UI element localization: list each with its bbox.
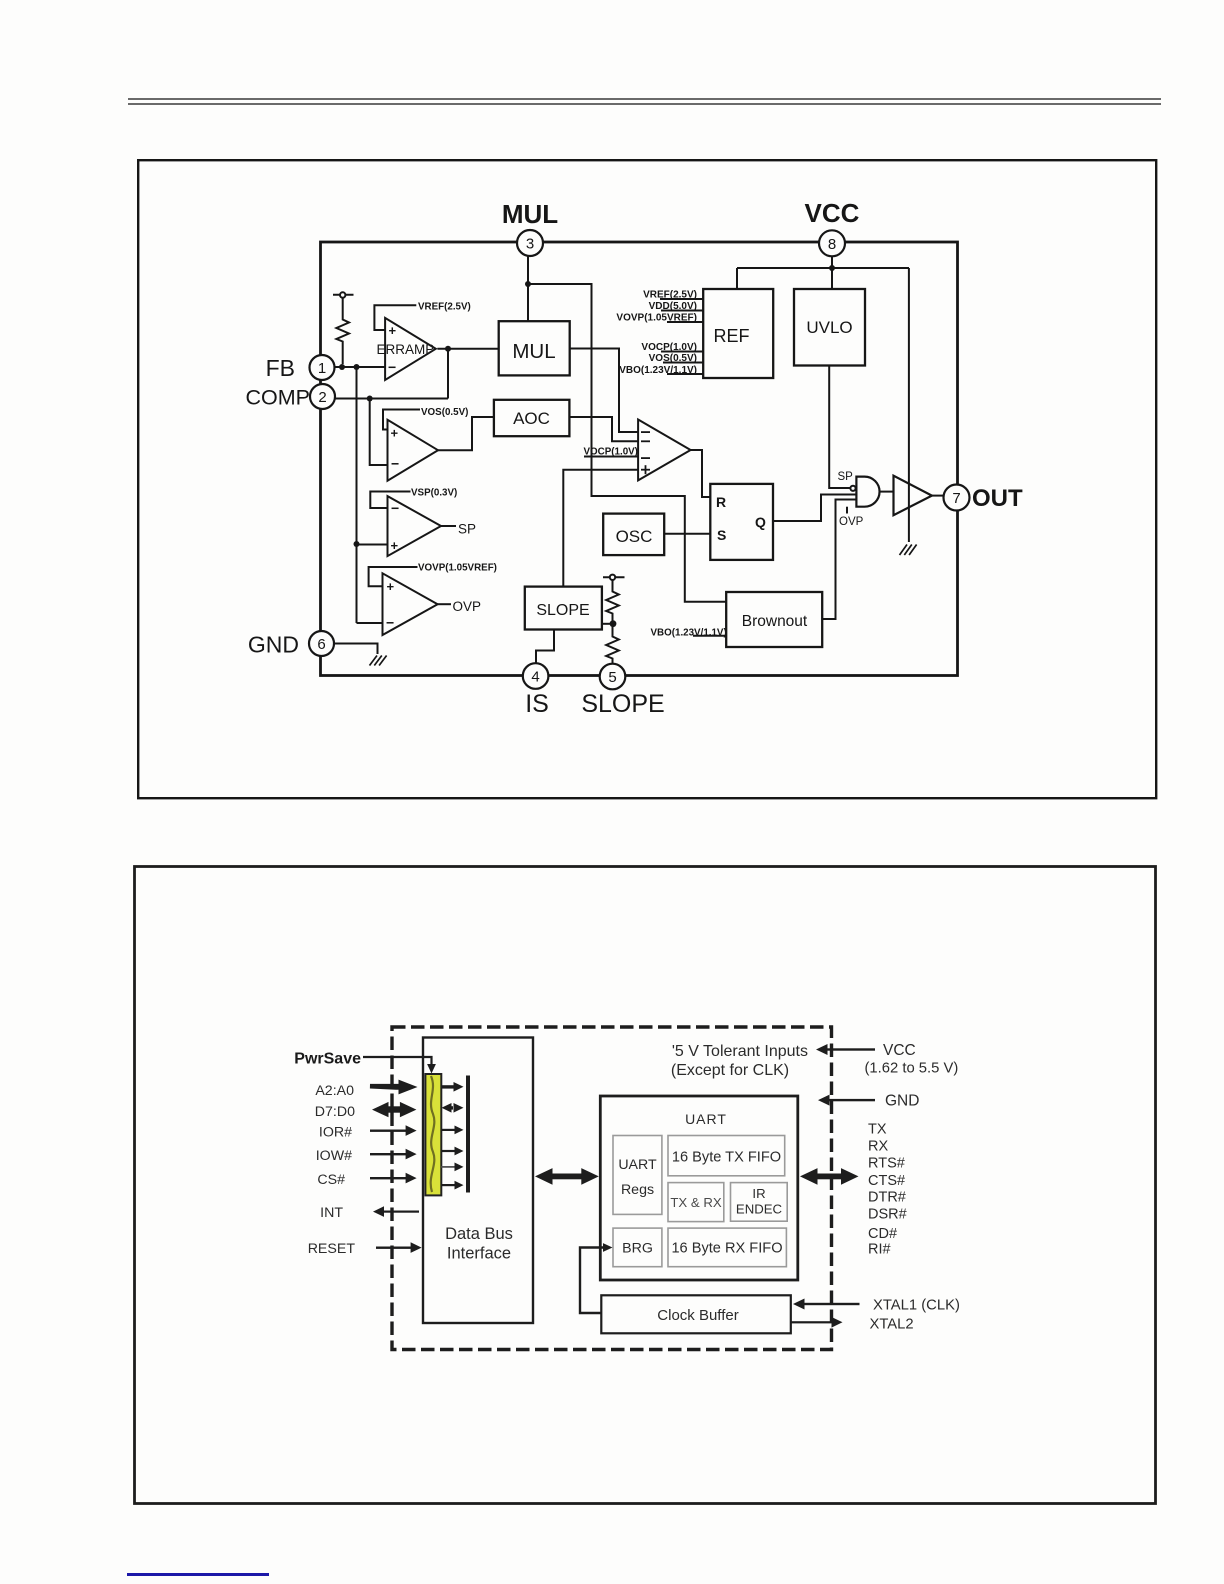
svg-text:VOCP(1.0V): VOCP(1.0V) [641,342,697,353]
svg-text:RI#: RI# [868,1242,891,1258]
UART Regs box [613,1136,662,1215]
pin 2 COMP [310,384,335,409]
arrow XTAL1 into clock buffer [799,1303,860,1305]
wire SLOPE box bottom to pin 4 [536,630,554,664]
svg-text:FB: FB [266,355,295,381]
wire VCC long drop to driver ground [908,268,910,542]
svg-text:CTS#: CTS# [868,1173,905,1189]
svg-text:GND: GND [248,632,299,658]
node below pin 8 [829,265,835,271]
comparator input tick 2 [641,440,650,442]
wire REF stub VBO [667,373,703,375]
pin 5 SLOPE [600,664,626,690]
svg-text:7: 7 [952,490,960,507]
arrow IOR# [370,1130,406,1132]
register cell swirl [431,1076,435,1192]
figure 1 border frame [137,159,1158,800]
svg-text:COMP: COMP [246,386,311,410]
wire driver output to pin 7 [932,495,944,497]
wire REF stub VOCP [661,351,703,353]
wire R1 terminal bar [333,294,354,296]
svg-text:RESET: RESET [308,1241,356,1257]
pin 1 FB [310,355,335,380]
RX FIFO box [668,1228,786,1267]
Brownout box [726,592,822,647]
svg-text:VOS(0.5V): VOS(0.5V) [421,407,468,418]
svg-text:VOVP(1.05VREF): VOVP(1.05VREF) [616,313,697,324]
ground symbol under driver [900,545,917,556]
wire OSC output to S [664,533,710,535]
wire FB to SP amp plus input [357,544,388,546]
comparator PWM triangle [638,420,691,481]
svg-text:TX & RX: TX & RX [670,1195,721,1210]
svg-text:4: 4 [531,669,539,686]
svg-text:CS#: CS# [317,1172,345,1188]
svg-text:+: + [389,323,397,338]
svg-text:MUL: MUL [512,340,555,363]
wire to REF top [736,268,738,289]
svg-text:VREF(2.5V): VREF(2.5V) [643,290,697,301]
bus arrow d7 row double [446,1106,453,1109]
arrow D7:D0 double [383,1106,406,1112]
svg-text:16 Byte RX FIFO: 16 Byte RX FIFO [671,1241,782,1257]
figure 2 border frame [133,865,1159,1507]
arrow A2:A0 [370,1086,404,1087]
resistor R2 slope upper [606,580,619,621]
bus arrow cs row [441,1166,456,1168]
svg-text:OVP: OVP [839,516,864,528]
svg-text:D7:D0: D7:D0 [315,1104,355,1120]
node FB b [354,364,360,370]
bus arrow int row [441,1184,456,1186]
wire SP output [441,525,456,527]
wire VSP stub to SP minus [370,492,410,509]
svg-text:6: 6 [317,636,325,653]
BRG box [613,1228,662,1267]
pin 8 VCC [819,230,845,256]
svg-text:UVLO: UVLO [806,318,852,337]
arrow IOW# [370,1153,406,1155]
svg-text:R: R [716,494,726,510]
wire VREF stub to ERRAMP plus [374,305,416,330]
node ERRAMP output [445,346,451,352]
wire VBO underline to Brownout [693,635,726,637]
gate OVP stub [846,507,848,514]
svg-text:VCC: VCC [805,198,860,228]
svg-text:UART: UART [685,1111,727,1127]
svg-text:SLOPE: SLOPE [581,690,664,718]
driver buffer triangle [894,476,932,516]
svg-text:(Except for CLK): (Except for CLK) [671,1062,789,1079]
svg-text:IOR#: IOR# [319,1125,352,1141]
top double rule [128,98,1161,100]
svg-text:VDD(5.0V): VDD(5.0V) [649,301,697,312]
svg-text:16 Byte TX FIFO: 16 Byte TX FIFO [672,1150,781,1166]
wire MUL output to comparator [570,349,638,433]
REF box [703,289,773,378]
wire REF stub VOS [663,362,703,364]
wire VCC rail branch [737,267,909,269]
comparator input tick 1 [641,431,650,433]
svg-text:IS: IS [525,690,549,718]
svg-text:REF: REF [714,326,750,346]
wire ERRAMP output to MUL [437,348,498,350]
svg-text:XTAL2: XTAL2 [870,1317,914,1333]
arrow RESET [376,1247,412,1249]
svg-text:Interface: Interface [447,1245,511,1263]
pin 3 MUL [517,230,543,256]
MUL multiplier box [499,321,570,375]
wire FB pin1 to ERRAMP [334,366,385,368]
svg-text:VREF(2.5V): VREF(2.5V) [418,302,471,313]
bus arrow ior row [441,1129,456,1131]
wire COMP pin2 [335,398,448,400]
svg-text:XTAL1 (CLK): XTAL1 (CLK) [873,1298,960,1314]
svg-text:8: 8 [828,236,836,253]
svg-text:VOVP(1.05VREF): VOVP(1.05VREF) [418,563,497,574]
wire FB bus down [356,367,358,623]
ground symbol near pin 6 [370,656,387,666]
svg-text:ERRAMP: ERRAMP [377,342,435,357]
TX FIFO box [668,1136,785,1176]
arrow CS# [370,1177,406,1179]
svg-text:DSR#: DSR# [868,1207,907,1223]
svg-text:UART: UART [618,1157,657,1173]
svg-text:Q: Q [755,514,766,530]
wire pin6 to ground [334,644,378,655]
register cell yellow [425,1074,441,1195]
pin 6 GND [309,631,334,656]
IC internal boundary box [321,242,958,676]
wire SLOPE box to divider node [602,623,613,625]
svg-text:RTS#: RTS# [868,1156,905,1172]
svg-text:3: 3 [526,236,534,253]
svg-text:VCC: VCC [883,1042,916,1059]
wire FB to OVP amp minus input [357,622,383,624]
wire VOCP stub third input [584,456,638,458]
node junction below pin 3 [525,281,531,287]
op-amp SP comparator triangle [388,496,442,556]
svg-text:IOW#: IOW# [316,1148,352,1164]
wire pin3 node to brownout feed [528,284,726,602]
svg-text:VBO(1.23V/1.1V): VBO(1.23V/1.1V) [619,365,697,376]
wire comparator output to R [690,450,710,497]
pin 7 OUT [944,485,970,511]
svg-text:GND: GND [885,1093,919,1110]
wire VOVP stub to OVP plus [369,567,418,586]
chip dashed boundary [392,1027,832,1350]
svg-text:(1.62 to 5.5 V): (1.62 to 5.5 V) [865,1061,959,1077]
op-amp AOC comparator triangle [388,420,439,481]
flip-flop RS box [710,484,773,560]
svg-text:RX: RX [868,1139,888,1155]
arrow PwrSave head [427,1064,436,1074]
svg-text:VBO(1.23V/1.1V): VBO(1.23V/1.1V) [651,628,727,639]
svg-text:IR: IR [752,1186,765,1201]
svg-text:Regs: Regs [621,1182,654,1198]
arrow XTAL2 out [791,1321,837,1323]
AND gate input bubble [850,486,855,491]
AND gate U2 [856,477,879,507]
svg-text:AOC: AOC [513,409,550,428]
bus arrow a2 row [441,1085,455,1088]
svg-text:PwrSave: PwrSave [294,1051,361,1068]
svg-text:CD#: CD# [868,1226,897,1242]
svg-text:BRG: BRG [622,1241,653,1257]
wire Brownout output to gate [822,500,856,620]
svg-text:−: − [391,500,399,516]
arrow BRG head [603,1243,613,1252]
wire REF stub VDD [661,310,703,312]
svg-text:VSP(0.3V): VSP(0.3V) [411,488,457,499]
pin 4 IS [523,663,549,689]
bus double arrow DBI to UART [546,1174,588,1180]
wire REF stub VOVP [667,321,703,323]
svg-text:ENDEC: ENDEC [736,1202,783,1217]
wire BRG to clock buffer [580,1248,604,1314]
svg-text:MUL: MUL [502,199,558,229]
SLOPE box [525,587,602,630]
wire gate output to driver [880,491,894,493]
arrow INT left [383,1211,419,1213]
op-amp ERRAMP triangle [385,318,436,380]
UART box [600,1096,798,1280]
Clock Buffer box [601,1295,791,1333]
svg-text:VOCP(1.0V): VOCP(1.0V) [584,447,638,458]
svg-text:2: 2 [318,389,326,406]
wire AOC amp output [438,417,494,450]
svg-text:−: − [391,456,399,472]
arrow GND into chip [824,1099,875,1101]
UVLO box [794,289,865,366]
svg-text:SP: SP [458,522,476,537]
internal bus line [466,1076,470,1193]
wire ERRAMP output to COMP [447,349,449,399]
node COMP branch [367,396,373,402]
wire UVLO output down to gate [829,366,850,489]
bus arrow iow row [441,1150,456,1152]
svg-text:−: − [388,359,396,375]
svg-text:SLOPE: SLOPE [536,602,589,619]
OSC box [603,514,664,556]
TX RX box [668,1183,724,1222]
resistor R1 [336,298,349,364]
svg-text:+: + [387,579,395,594]
wire pin3 stem to MUL [527,256,529,321]
svg-text:Data Bus: Data Bus [445,1225,513,1243]
wire OVP output [438,603,451,605]
svg-text:S: S [717,527,726,543]
svg-text:Clock Buffer: Clock Buffer [657,1307,738,1324]
node FB a [339,364,345,370]
resistor R1 pullup terminal [340,292,345,297]
resistor R3 slope lower [606,626,619,664]
Data Bus Interface box [423,1038,533,1324]
wire comparator plus input from slope [563,470,638,587]
svg-text:OUT: OUT [972,485,1023,512]
svg-text:DTR#: DTR# [868,1190,906,1206]
arrow VCC into chip [822,1048,875,1050]
wire REF stub VREF [660,298,703,300]
wire Q output to gate [773,495,856,522]
AOC box [494,400,570,436]
svg-text:SP: SP [838,471,854,483]
IR ENDEC box [731,1183,788,1222]
wire VOS stub to AOC plus [383,410,420,430]
svg-text:Brownout: Brownout [742,613,808,630]
op-amp OVP comparator triangle [383,573,438,635]
bottom blue hyperlink rule [127,1573,269,1576]
svg-text:INT: INT [320,1205,343,1221]
node FB to SP [354,541,360,547]
svg-text:OSC: OSC [616,527,653,546]
comparator plus tick [641,469,650,471]
wire AOC box output to comparator [569,417,638,441]
wire pin8 stem to UVLO [831,257,833,290]
svg-text:1: 1 [318,360,326,377]
svg-text:+: + [391,426,399,441]
svg-text:5: 5 [608,669,616,686]
bus double arrow UART to pins [811,1174,847,1180]
wire slope terminal bar [603,576,625,578]
wire PwrSave [363,1057,432,1064]
comparator input tick 3 [641,457,650,459]
node slope divider [610,620,617,627]
svg-text:−: − [386,615,394,631]
svg-text:+: + [391,538,399,553]
svg-text:'5 V Tolerant Inputs: '5 V Tolerant Inputs [672,1043,808,1060]
svg-text:VOS(0.5V): VOS(0.5V) [649,353,697,364]
slope pin terminal circle [610,575,615,580]
svg-text:A2:A0: A2:A0 [315,1083,354,1099]
svg-text:TX: TX [868,1122,887,1138]
svg-text:OVP: OVP [453,599,482,614]
wire COMP to AOC amp inverting input [370,399,388,466]
